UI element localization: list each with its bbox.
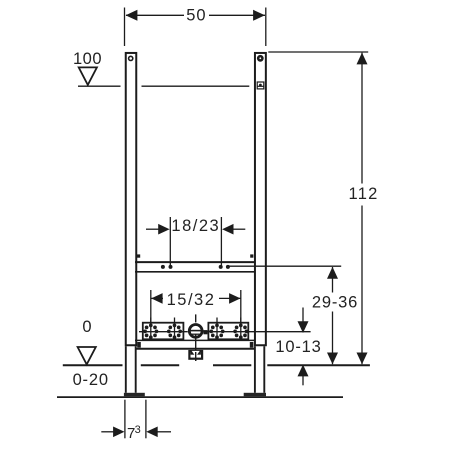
right rail top hole bbox=[257, 55, 264, 62]
29-36 top reference line bbox=[228, 265, 341, 267]
upper crossbar top line bbox=[135, 261, 255, 263]
dimension 112 arrow bottom bbox=[357, 353, 368, 365]
dimension 10-13 arrow top bbox=[298, 321, 309, 333]
left leg bbox=[125, 346, 127, 393]
dimension 7-3 right tail bbox=[157, 431, 171, 433]
dimension 18/23 arrow right bbox=[222, 224, 233, 235]
hole cluster 1 bbox=[143, 318, 158, 341]
right rail square detail bbox=[257, 82, 264, 89]
lower crossbar top line bbox=[135, 339, 255, 341]
dimension 50 extension line left bbox=[124, 8, 126, 47]
hole cluster 4 bbox=[233, 318, 248, 341]
upper crossbar clip left bbox=[137, 254, 140, 257]
mounting plate right bbox=[208, 323, 248, 340]
dimension 10-13 upper tail bbox=[302, 308, 304, 323]
dimension 18/23 extension line right bbox=[220, 217, 222, 268]
dimension 29-36 line upper segment bbox=[332, 267, 334, 293]
dimension 15/32 extension line right bbox=[240, 290, 242, 340]
upper crossbar bottom line bbox=[135, 271, 255, 273]
drain centre line bbox=[195, 338, 197, 361]
water connection right tab bbox=[203, 330, 207, 334]
1 m level line middle segment bbox=[142, 85, 250, 87]
left foot bbox=[124, 393, 145, 397]
svg-text:112: 112 bbox=[349, 185, 379, 203]
hole cluster 2 bbox=[167, 318, 182, 341]
svg-text:10-13: 10-13 bbox=[275, 338, 321, 356]
zero level dashed line segment 3 bbox=[213, 364, 251, 366]
left rail top hole bbox=[129, 56, 133, 60]
svg-text:50: 50 bbox=[186, 6, 206, 24]
lower crossbar bottom line bbox=[135, 348, 255, 350]
dimension 29-36 line lower segment bbox=[332, 312, 334, 365]
dimension 10-13 arrow bottom bbox=[298, 365, 309, 377]
svg-text:3: 3 bbox=[135, 424, 141, 436]
dimension 15/32 extension line left bbox=[150, 290, 152, 340]
svg-text:0-20: 0-20 bbox=[73, 371, 109, 389]
zero level triangle bbox=[78, 347, 96, 364]
dimension 15/32 arrow left bbox=[151, 293, 162, 304]
left rail bbox=[126, 53, 137, 345]
water connection bottom stub bbox=[195, 334, 197, 338]
dimension 18/23 left tail bbox=[146, 228, 159, 230]
hole cluster 3 bbox=[209, 318, 224, 341]
right foot bbox=[244, 393, 266, 397]
mounting plate left bbox=[143, 323, 184, 340]
dimension 15/32 line left segment bbox=[151, 297, 163, 299]
dimension 29-36 arrow top bbox=[327, 267, 338, 279]
right rail bbox=[255, 53, 266, 345]
dimension 15/32 line right segment bbox=[219, 297, 241, 299]
right leg bbox=[254, 346, 256, 393]
top reference line for 112 bbox=[268, 51, 368, 53]
zero level dashed line segment 2 bbox=[141, 364, 179, 366]
svg-text:18/23: 18/23 bbox=[171, 217, 220, 235]
lower crossbar clip left bbox=[137, 342, 141, 348]
svg-text:15/32: 15/32 bbox=[167, 291, 216, 309]
drain fitting bbox=[189, 351, 202, 359]
floor line bbox=[57, 396, 343, 398]
dimension 7-3 arrow left bbox=[113, 427, 124, 438]
1 m level triangle bbox=[79, 67, 97, 85]
dimension 18/23 arrow left bbox=[158, 224, 169, 235]
dimension 50 line left tail bbox=[126, 14, 184, 16]
dimension 10-13 lower tail bbox=[302, 376, 304, 385]
dimension 50 line right tail bbox=[209, 14, 265, 16]
water connection top tick bbox=[195, 314, 197, 322]
plate centre line / 10-13 reference line bbox=[139, 331, 311, 333]
dimension 7-3 arrow right bbox=[146, 427, 157, 438]
dimension 18/23 extension line left bbox=[169, 217, 171, 268]
water connection chord upper bbox=[190, 330, 203, 332]
dimension 29-36 arrow bottom bbox=[327, 353, 338, 365]
water connection circle bbox=[188, 323, 204, 339]
dimension 18/23 right tail bbox=[233, 228, 245, 230]
dimension 112 line lower segment bbox=[361, 206, 363, 365]
dimension 50 extension line right bbox=[265, 8, 267, 47]
dimension 112 arrow top bbox=[357, 53, 368, 65]
dimension 7-3 left tail bbox=[101, 431, 114, 433]
dimension 50 arrow right bbox=[253, 10, 265, 21]
dimension 112 line upper segment bbox=[361, 53, 363, 184]
dimension 50 arrow left bbox=[126, 10, 138, 21]
svg-text:0: 0 bbox=[82, 318, 91, 336]
svg-text:100: 100 bbox=[73, 50, 102, 68]
upper crossbar hole dots bbox=[161, 265, 165, 269]
dimension 7-3 extension line right bbox=[145, 400, 147, 439]
zero level dashed line segment 4 bbox=[267, 364, 370, 366]
zero level dashed line segment 1 bbox=[63, 364, 123, 366]
dimension 15/32 arrow right bbox=[229, 293, 240, 304]
upper crossbar clip right bbox=[250, 254, 253, 257]
water connection chord lower bbox=[190, 333, 201, 335]
lower crossbar clip right bbox=[250, 342, 254, 348]
dimension 7-3 extension line left bbox=[124, 400, 126, 439]
1 m level line left segment bbox=[78, 85, 121, 87]
svg-text:29-36: 29-36 bbox=[312, 293, 358, 311]
